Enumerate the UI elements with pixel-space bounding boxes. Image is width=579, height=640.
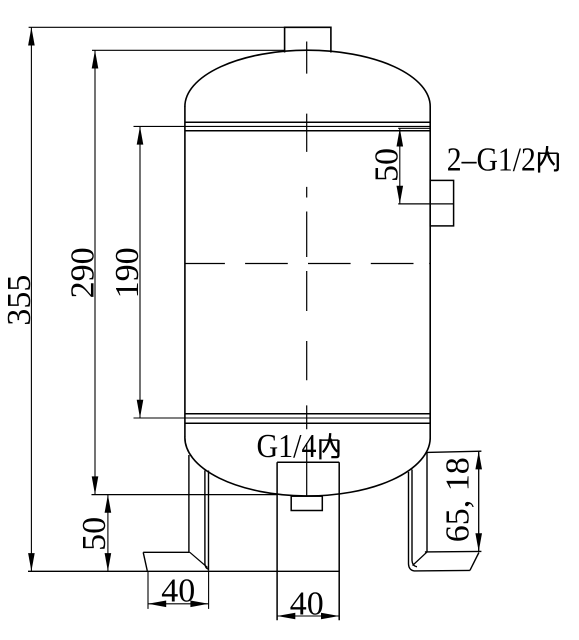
svg-text:50: 50 <box>76 517 113 551</box>
dim 40 left extension line L <box>147 571 149 609</box>
horizontal centerline <box>185 263 431 265</box>
dim 355 arrow down <box>28 553 35 571</box>
dim 290 arrow down <box>92 476 99 494</box>
dim 40 bottom arrow right <box>321 613 339 620</box>
dim 290 line <box>94 50 96 494</box>
bottom port G1/4 top edge <box>277 461 339 463</box>
bottom weld seam line 2 (extends left as 190 extension) <box>134 417 431 419</box>
dim 290 arrow up <box>92 50 99 68</box>
svg-text:355: 355 <box>1 275 38 326</box>
right leg side flange outer edge <box>409 472 415 571</box>
dim 65,18 arrow up <box>475 451 482 469</box>
dim 290 top extension line <box>92 49 285 51</box>
left leg foot top <box>143 551 190 553</box>
tank shell right wall <box>429 107 431 440</box>
svg-text:G1/4: G1/4 <box>257 428 317 465</box>
top weld seam line 3 <box>185 130 430 132</box>
svg-text:290: 290 <box>64 247 101 298</box>
dim 40 left line <box>148 603 209 605</box>
dim 40 bottom line <box>277 615 339 617</box>
vertical centerline <box>306 42 308 496</box>
dim 190 arrow up <box>137 126 144 144</box>
dim 50 top-right arrow up <box>397 128 404 146</box>
top nozzle <box>285 27 331 52</box>
left leg outer edge <box>208 471 210 571</box>
dim 50 top-right line <box>399 128 401 204</box>
top head dome <box>185 50 430 106</box>
right leg face bottom edge <box>425 550 482 553</box>
left leg bend diagonal <box>190 552 208 567</box>
dome bottom extension line (290/50) <box>92 494 278 496</box>
right leg foot bottom <box>414 569 470 572</box>
side port 2-G1/2 body <box>430 180 453 226</box>
dim 355 arrow up <box>28 27 35 45</box>
bottom port inner socket rect <box>291 496 322 510</box>
left leg front edge <box>188 455 190 552</box>
right leg side flange inner edge <box>412 470 417 567</box>
right leg foot right slant <box>470 553 479 571</box>
dim 50 bottom-left arrow up <box>105 495 112 513</box>
dim 50 bottom-left line <box>107 495 109 572</box>
svg-text:2–G1/2: 2–G1/2 <box>447 141 536 178</box>
svg-text:40: 40 <box>290 586 324 623</box>
top weld seam line 1 <box>185 121 430 123</box>
dim 190 arrow down <box>137 400 144 418</box>
dim 40 left extension line R <box>208 571 210 609</box>
dim 65,18 line <box>478 451 480 551</box>
50 top extension line <box>398 127 430 129</box>
dim 355 top extension line <box>29 26 285 28</box>
dim 190 line <box>139 126 141 418</box>
dim 50 bottom-left arrow down <box>105 553 112 571</box>
bottom port G1/4 right edge <box>338 462 340 620</box>
label 2-G1/2 CJK nei glyph <box>538 146 558 173</box>
top weld seam line 2 (extends left as 190 extension) <box>134 125 431 127</box>
dim 65,18 arrow down <box>475 533 482 551</box>
svg-text:40: 40 <box>161 573 195 610</box>
dim 40 left arrow left <box>148 601 166 608</box>
left leg inner edge <box>205 471 209 570</box>
dim 50 top-right arrow down <box>397 186 404 204</box>
label G1/4 CJK nei glyph <box>319 433 338 459</box>
bottom weld seam line 3 <box>185 422 430 424</box>
dim 40 bottom arrow left <box>277 613 295 620</box>
side port midline / 50 extension line <box>398 203 453 205</box>
bottom weld seam line 1 <box>185 413 430 415</box>
bottom head dome <box>185 437 430 496</box>
right leg face top edge <box>427 451 482 452</box>
right leg bend diagonal <box>413 552 428 566</box>
svg-text:65, 18: 65, 18 <box>440 457 477 542</box>
right leg face left edge <box>426 452 428 552</box>
bottom port G1/4 left edge <box>276 462 278 620</box>
ground base line (355/50 bottom extension) <box>28 570 339 572</box>
tank shell left wall <box>184 106 186 437</box>
left leg foot left slant <box>143 552 147 571</box>
svg-text:50: 50 <box>369 148 406 182</box>
svg-text:190: 190 <box>109 247 146 298</box>
dim 355 line <box>30 27 32 571</box>
dim 40 left arrow right <box>190 601 208 608</box>
